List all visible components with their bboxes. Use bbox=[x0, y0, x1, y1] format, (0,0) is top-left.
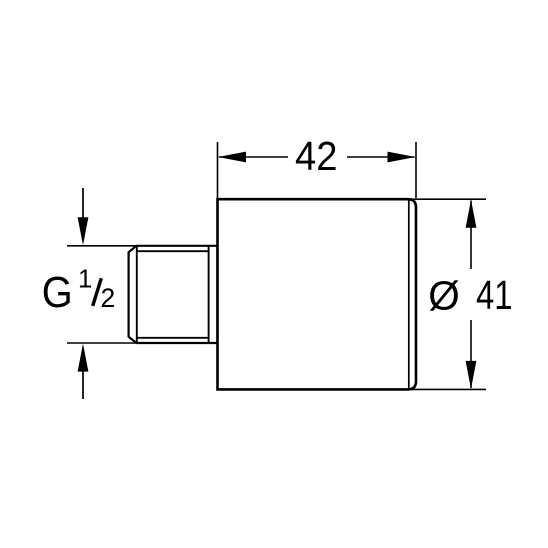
dim 42 left arrowhead bbox=[218, 152, 246, 163]
thread label fraction slash bbox=[93, 278, 102, 306]
G12 top arrowhead bbox=[78, 217, 89, 245]
G12 bottom arrowhead bbox=[78, 344, 89, 372]
thread minor diameter top line bbox=[137, 250, 209, 252]
svg-text:42: 42 bbox=[295, 133, 338, 179]
body silhouette edge line bbox=[408, 201, 410, 389]
G12 bottom extension line bbox=[67, 342, 136, 344]
dim 42 line right segment bbox=[347, 156, 415, 158]
thread minor diameter bottom line bbox=[137, 337, 209, 339]
dim 42 right extension line bbox=[415, 142, 417, 198]
svg-text:Ø: Ø bbox=[428, 273, 460, 319]
svg-text:41: 41 bbox=[476, 272, 513, 318]
dim 42 line left segment bbox=[219, 156, 288, 158]
thread chamfer line bbox=[136, 246, 138, 343]
dia 41 dim line bottom segment bbox=[470, 320, 472, 388]
body outline bbox=[218, 199, 417, 389]
thread runout line bbox=[208, 246, 210, 343]
svg-text:2: 2 bbox=[101, 283, 116, 313]
dia 41 top extension line bbox=[410, 198, 486, 200]
dia 41 dim line top segment bbox=[470, 201, 472, 270]
dim 42 left extension line bbox=[217, 142, 219, 198]
G12 top arrow shaft bbox=[82, 188, 84, 222]
svg-text:1: 1 bbox=[78, 266, 92, 294]
threaded connector G1/2 outline bbox=[129, 246, 218, 343]
dia 41 up arrowhead bbox=[466, 200, 477, 228]
svg-text:G: G bbox=[42, 269, 73, 317]
dim 42 right arrowhead bbox=[388, 152, 416, 163]
G12 top extension line bbox=[67, 245, 136, 247]
dia 41 down arrowhead bbox=[466, 361, 477, 389]
G12 bottom arrow shaft bbox=[82, 369, 84, 399]
dia 41 bottom extension line bbox=[410, 388, 486, 390]
